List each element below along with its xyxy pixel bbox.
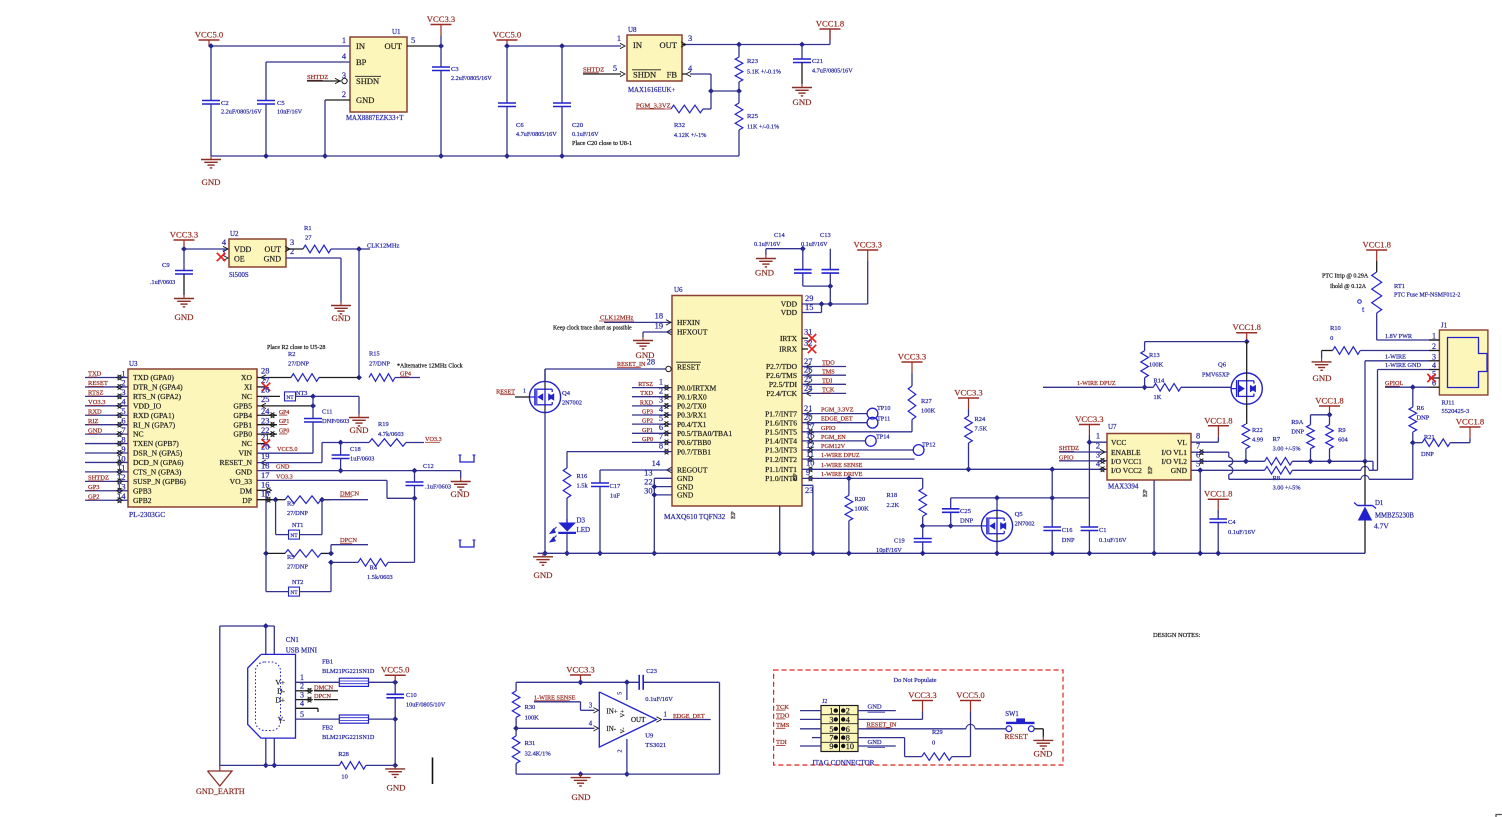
svg-text:GPB4: GPB4	[233, 411, 252, 420]
svg-text:NC: NC	[241, 439, 252, 448]
svg-text:C1: C1	[1099, 527, 1106, 534]
ground at R28	[385, 765, 405, 792]
power flag VCC1.8 at R9	[1311, 396, 1344, 418]
svg-text:U8: U8	[628, 26, 637, 34]
ground at R10	[1312, 358, 1332, 383]
svg-text:DESIGN NOTES:: DESIGN NOTES:	[1153, 632, 1201, 639]
power flag VCC3.3 at U1 output	[427, 14, 455, 46]
svg-text:4.7V: 4.7V	[1374, 522, 1389, 531]
svg-text:GND: GND	[349, 425, 368, 435]
resistor R21 DNP to VCC1.8	[1413, 434, 1470, 458]
svg-text:P1.4/INT4: P1.4/INT4	[765, 437, 797, 446]
svg-text:USB MINI: USB MINI	[286, 647, 318, 655]
svg-text:HFXIN: HFXIN	[677, 318, 701, 327]
U6 P1.3 PGM12V to TP12	[802, 440, 913, 452]
CN1 D- pin 2 to DMCN	[296, 682, 339, 694]
svg-text:27/DNP: 27/DNP	[287, 510, 308, 517]
net label 1-WIRE wire at J1 pin3	[1365, 353, 1429, 461]
svg-text:13: 13	[644, 468, 652, 477]
svg-text:IN-: IN-	[606, 725, 616, 733]
resistor R6 DNP	[1409, 387, 1430, 445]
svg-text:P0.3/RX1: P0.3/RX1	[677, 411, 707, 420]
svg-text:RTS_N (GPA2): RTS_N (GPA2)	[133, 392, 181, 401]
svg-text:VCC5.0: VCC5.0	[956, 690, 984, 700]
svg-text:R23: R23	[747, 58, 759, 65]
wire U8 OUT to VCC1.8	[681, 29, 830, 47]
svg-text:C14: C14	[774, 232, 785, 239]
svg-text:3.00 +/-5%: 3.00 +/-5%	[1273, 485, 1301, 492]
svg-text:SW1: SW1	[1005, 711, 1019, 718]
svg-text:VCC5.0: VCC5.0	[381, 665, 409, 675]
svg-text:3: 3	[659, 396, 663, 405]
ground at HFXOUT	[633, 337, 655, 360]
svg-text:18: 18	[261, 462, 269, 471]
svg-text:R9: R9	[1338, 427, 1345, 434]
net label CLK12MHz at oscillator	[331, 243, 399, 252]
svg-text:27: 27	[305, 235, 312, 242]
svg-text:OUT: OUT	[660, 40, 678, 50]
wire U2 GND to ground	[286, 258, 341, 302]
net label GP4 after R15	[400, 371, 411, 378]
svg-text:CLK12MHz: CLK12MHz	[367, 243, 399, 250]
svg-text:C21: C21	[812, 58, 823, 65]
wire R6 junction down to U7 IO VL1 row	[1412, 443, 1414, 480]
JTAG CONNECTOR caption	[812, 759, 875, 767]
svg-text:GND: GND	[868, 704, 882, 711]
net label SHTDZ at U8 SHDN	[583, 67, 625, 77]
svg-text:1uF/0603: 1uF/0603	[350, 456, 375, 463]
net label 1-WIRE GND wire at J1 pin4	[1373, 362, 1429, 470]
svg-text:CN1: CN1	[286, 636, 300, 644]
svg-text:604: 604	[1338, 437, 1348, 444]
U6 P1.7 PGM_3.3VZ to TP10	[802, 404, 867, 416]
svg-text:5: 5	[659, 414, 663, 423]
svg-text:DTR_N (GPA4): DTR_N (GPA4)	[133, 383, 183, 392]
net label EDGE_DET at U9 OUT	[657, 712, 711, 723]
net label RESET at Q4 gate	[496, 388, 529, 397]
transistor Q6 PMV65XP	[1202, 342, 1262, 424]
svg-text:BLM21PG221SN1D: BLM21PG221SN1D	[322, 668, 375, 675]
capacitor C14	[754, 232, 833, 289]
svg-text:VCC: VCC	[1111, 438, 1126, 447]
svg-text:NC: NC	[241, 392, 252, 401]
svg-text:Keep clock trace short as poss: Keep clock trace short as possible	[553, 326, 632, 332]
net label 1-WIRE DPUZ and resistor R14	[1043, 378, 1231, 401]
svg-text:1: 1	[664, 712, 667, 719]
wire U7 VL pin8 to VCC1.8	[1191, 437, 1218, 442]
svg-text:R10: R10	[1330, 325, 1341, 332]
svg-text:R9A: R9A	[1291, 419, 1303, 426]
svg-text:I/O VCC1: I/O VCC1	[1111, 457, 1142, 466]
wire VCC3.3 to U2 VDD	[184, 246, 229, 251]
svg-text:VDD: VDD	[234, 245, 252, 254]
svg-text:1: 1	[659, 377, 663, 386]
svg-text:XI: XI	[244, 383, 252, 392]
svg-text:GND: GND	[264, 255, 282, 264]
design notes caption	[1153, 632, 1201, 639]
svg-text:BP: BP	[356, 57, 367, 67]
svg-text:28: 28	[647, 358, 655, 367]
svg-text:4: 4	[300, 699, 304, 708]
U9 supply rail	[516, 679, 639, 691]
svg-text:VCC1.8: VCC1.8	[1362, 240, 1390, 250]
off-page bracket upper	[459, 455, 476, 462]
svg-text:4.7uF/0805/16V: 4.7uF/0805/16V	[812, 68, 853, 75]
svg-text:26: 26	[261, 385, 269, 394]
svg-text:RESET: RESET	[677, 363, 700, 372]
svg-text:18: 18	[655, 312, 663, 321]
resistor R19 to VO3.3	[341, 421, 424, 446]
svg-text:0: 0	[1330, 335, 1333, 342]
svg-text:GPIO: GPIO	[821, 425, 836, 432]
svg-text:VCC1.8: VCC1.8	[1204, 489, 1232, 499]
svg-text:3: 3	[589, 703, 593, 710]
svg-text:5: 5	[618, 692, 624, 695]
JTAG pin2 GND label	[858, 704, 896, 713]
svg-text:R8: R8	[1273, 475, 1280, 482]
resistor R27	[908, 373, 935, 420]
power flag VCC5.0 (input rail)	[195, 30, 223, 47]
regulator U1 MAX8887EZK33+T	[342, 28, 415, 122]
U3 DM to R5 wire	[263, 551, 269, 557]
U3 VIN pin 20 to VCC5.0	[257, 442, 313, 453]
svg-text:0.1uF/16V: 0.1uF/16V	[645, 696, 673, 703]
svg-text:2: 2	[342, 90, 346, 99]
svg-text:27/DNP: 27/DNP	[369, 361, 390, 368]
svg-text:4.99: 4.99	[1252, 437, 1263, 444]
svg-text:NT: NT	[290, 533, 298, 539]
power flag VCC1.8 at Q6	[1232, 322, 1260, 344]
svg-text:TP12: TP12	[922, 442, 935, 449]
svg-text:0: 0	[932, 740, 935, 747]
svg-text:I/O VL2: I/O VL2	[1162, 457, 1188, 466]
svg-text:D+: D+	[275, 695, 285, 704]
svg-text:GND: GND	[792, 97, 811, 107]
svg-text:U9: U9	[645, 733, 654, 740]
net label GPIO to U7 IO VCC1	[1059, 454, 1107, 463]
sheet frame corner mark	[1496, 815, 1502, 817]
resistor R22	[1242, 424, 1263, 464]
svg-text:P1.7/INT7: P1.7/INT7	[765, 409, 797, 418]
svg-text:SUSP_N (GPB6): SUSP_N (GPB6)	[133, 477, 186, 486]
svg-text:100K: 100K	[921, 408, 936, 415]
JTAG header pins and numbers	[829, 707, 854, 751]
wire CLK12MHz down to R2/R15 junction	[356, 249, 362, 380]
svg-text:Si500S: Si500S	[229, 272, 249, 279]
svg-text:GND: GND	[677, 491, 694, 500]
svg-text:J2: J2	[822, 699, 827, 705]
CN1 shield bottom stubs	[263, 738, 277, 768]
svg-text:C11: C11	[322, 409, 332, 416]
svg-text:MMBZ5230B: MMBZ5230B	[1375, 513, 1414, 520]
svg-text:Do Not Populate: Do Not Populate	[894, 677, 937, 684]
svg-text:C6: C6	[516, 122, 524, 129]
U6 P1.4 PGM_EN to TP14	[802, 431, 865, 443]
svg-text:26: 26	[804, 366, 812, 375]
op-amp U9 TS3021	[599, 682, 666, 777]
svg-text:P1.3/INT3: P1.3/INT3	[765, 446, 797, 455]
U6 EP pad wire	[777, 506, 783, 556]
svg-text:IN: IN	[356, 41, 365, 51]
svg-text:3: 3	[688, 34, 692, 43]
svg-text:C17: C17	[610, 483, 621, 490]
U7 pin4 arrow on 1-WIRE SENSE rail	[1100, 467, 1106, 472]
note Place R2 close to U5-28	[267, 345, 325, 351]
svg-text:TXEN (GPB7): TXEN (GPB7)	[133, 439, 179, 448]
svg-text:10: 10	[806, 459, 814, 468]
resistor R13	[1141, 342, 1247, 391]
svg-text:10pF/16V: 10pF/16V	[876, 547, 902, 554]
power flag VCC5.0 at CN1	[381, 665, 409, 683]
svg-text:3: 3	[829, 715, 833, 724]
svg-text:NT1: NT1	[292, 522, 303, 529]
wire U1 OUT to VCC3.3 node	[407, 43, 444, 49]
svg-text:P0.2/TX0: P0.2/TX0	[677, 402, 707, 411]
regulator U8 MAX1616EUK+	[613, 26, 693, 94]
svg-text:R18: R18	[887, 492, 898, 499]
svg-text:U6: U6	[674, 286, 683, 294]
svg-text:GND: GND	[533, 570, 552, 580]
svg-text:P0.7/TBB1: P0.7/TBB1	[677, 447, 711, 456]
svg-text:GPB2: GPB2	[133, 496, 152, 505]
svg-text:R1: R1	[304, 225, 312, 232]
svg-text:2N7002: 2N7002	[562, 400, 582, 407]
svg-text:0.1uF/16V: 0.1uF/16V	[1228, 529, 1256, 536]
power flag VCC3.3 at R27	[898, 352, 926, 374]
svg-text:1: 1	[1096, 432, 1100, 441]
CN1 pin 4 stub	[296, 699, 319, 712]
transistor Q4 2N7002	[529, 369, 582, 556]
svg-text:6: 6	[659, 423, 663, 432]
svg-text:GND: GND	[1171, 466, 1188, 475]
svg-text:29: 29	[805, 294, 813, 303]
svg-text:GPB1: GPB1	[233, 420, 252, 429]
svg-text:R19: R19	[378, 421, 389, 428]
svg-text:Ihold @ 0.12A: Ihold @ 0.12A	[1330, 284, 1367, 290]
resistor R25	[735, 91, 779, 156]
power flag VCC5.0 at JTAG	[956, 690, 984, 712]
svg-text:TXD (GPA0): TXD (GPA0)	[133, 373, 174, 382]
svg-text:5.1K +/-0.1%: 5.1K +/-0.1%	[747, 69, 781, 76]
ground at C14	[755, 249, 776, 278]
svg-text:C4: C4	[1228, 519, 1236, 526]
svg-text:TP10: TP10	[877, 405, 890, 412]
svg-text:U3: U3	[129, 360, 138, 368]
test point TP11	[867, 415, 890, 428]
ground at C12	[450, 478, 470, 499]
svg-text:J1: J1	[1441, 322, 1448, 330]
off-page bracket lower	[459, 540, 476, 547]
svg-text:10uF/0805/10V: 10uF/0805/10V	[406, 702, 446, 709]
svg-text:NC: NC	[133, 430, 144, 439]
svg-text:LED: LED	[577, 526, 591, 534]
svg-text:RT1: RT1	[1394, 283, 1405, 290]
capacitor C12	[406, 463, 452, 501]
svg-text:GND_EARTH: GND_EARTH	[196, 787, 245, 796]
svg-text:1: 1	[829, 707, 833, 716]
ground at C9	[174, 295, 194, 322]
svg-text:R27: R27	[921, 398, 932, 405]
svg-text:4.7uF/0805/16V: 4.7uF/0805/16V	[516, 131, 557, 138]
svg-text:0.1uF/16V: 0.1uF/16V	[801, 241, 828, 248]
svg-text:2.2uF/0805/16V: 2.2uF/0805/16V	[221, 109, 262, 116]
svg-text:4: 4	[589, 721, 593, 728]
resistor R15 alternative clock	[369, 351, 463, 382]
svg-text:DSR_N (GPA5): DSR_N (GPA5)	[133, 449, 183, 458]
svg-text:R22: R22	[1252, 427, 1263, 434]
svg-text:D-: D-	[277, 687, 285, 696]
svg-text:VCC5.0: VCC5.0	[277, 446, 297, 453]
svg-text:GND: GND	[1312, 373, 1331, 383]
svg-text:VIN: VIN	[239, 449, 253, 458]
svg-text:22: 22	[644, 478, 652, 487]
svg-text:7: 7	[659, 432, 663, 441]
JTAG pin4 to VCC3.3	[858, 712, 923, 720]
svg-text:27: 27	[804, 357, 812, 366]
svg-text:15: 15	[261, 490, 269, 499]
svg-text:FB2: FB2	[322, 725, 333, 732]
svg-text:VCC1.8: VCC1.8	[1456, 417, 1484, 427]
svg-text:HFXOUT: HFXOUT	[677, 328, 708, 337]
svg-text:V+: V+	[620, 709, 627, 717]
svg-text:VCC3.3: VCC3.3	[427, 14, 455, 24]
svg-text:PGM_EN: PGM_EN	[821, 434, 846, 441]
capacitor C16 DNP	[1043, 469, 1075, 556]
no-tie NT3 on U3 NC pin 26	[257, 385, 359, 414]
svg-text:3.00 +/-5%: 3.00 +/-5%	[1273, 446, 1301, 453]
svg-text:VCC3.3: VCC3.3	[954, 388, 982, 398]
svg-text:10: 10	[341, 774, 347, 781]
svg-text:GND: GND	[276, 464, 290, 471]
U6 GND pins 13 22 30	[644, 468, 672, 556]
svg-text:VCC3.3: VCC3.3	[853, 240, 881, 250]
ground at U9	[571, 774, 591, 802]
svg-text:C19: C19	[894, 538, 905, 545]
svg-text:GPB0: GPB0	[233, 430, 252, 439]
wire U7 IO VL1 jog down to bottom row	[1191, 450, 1413, 480]
svg-text:GND: GND	[755, 268, 774, 278]
svg-text:8: 8	[659, 441, 663, 450]
svg-text:GND: GND	[450, 489, 469, 499]
svg-text:PMV65XP: PMV65XP	[1202, 372, 1230, 379]
stray mark near CN1	[432, 758, 434, 785]
U7 EP wire to ground	[1151, 480, 1157, 556]
resistor R2 on XO pin 28	[257, 351, 359, 381]
svg-text:IRTX: IRTX	[780, 334, 798, 343]
svg-text:14: 14	[652, 459, 661, 468]
net label SHTDZ to U7 ENABLE	[1059, 445, 1107, 455]
svg-text:19: 19	[261, 452, 269, 461]
IC U6 MAXQ610 body	[664, 286, 802, 521]
U9 ground rail	[516, 771, 719, 777]
LED D3	[550, 517, 590, 557]
svg-text:R28: R28	[338, 751, 349, 758]
svg-text:4.7k/0603: 4.7k/0603	[378, 431, 404, 438]
no-connect X at U3 XI pin 27	[257, 376, 270, 391]
wire U7 IO VL2 to R7 row	[1191, 459, 1265, 464]
svg-text:MAXQ610 TQFN32: MAXQ610 TQFN32	[664, 512, 726, 521]
svg-text:RI_N (GPA7): RI_N (GPA7)	[133, 420, 176, 429]
svg-text:VCC5.0: VCC5.0	[195, 30, 223, 40]
svg-text:EP: EP	[1142, 489, 1149, 497]
svg-text:ENABLE: ENABLE	[1111, 448, 1141, 457]
resistor R7	[1265, 436, 1368, 465]
svg-text:2: 2	[618, 750, 624, 753]
do not populate dashed box	[774, 670, 1063, 765]
svg-text:GND: GND	[236, 468, 253, 477]
U3 GPB5 pin 25 wire	[257, 395, 316, 409]
svg-text:OUT: OUT	[265, 245, 282, 254]
svg-text:R5: R5	[287, 554, 294, 561]
svg-text:Q5: Q5	[1015, 511, 1024, 518]
svg-text:1uF: 1uF	[610, 493, 620, 500]
svg-text:PL-2303GC: PL-2303GC	[129, 510, 165, 519]
resistor R1 on U2 OUT	[285, 225, 331, 253]
svg-text:C10: C10	[406, 692, 417, 699]
JTAG left labels TCK TDO TMS TDI	[776, 704, 821, 746]
svg-text:I/O VL1: I/O VL1	[1162, 448, 1188, 457]
svg-text:.1uF/0603: .1uF/0603	[150, 279, 175, 286]
svg-text:GND: GND	[174, 312, 193, 322]
svg-text:GND: GND	[571, 792, 590, 802]
svg-text:PGM_3.3VZ: PGM_3.3VZ	[821, 407, 854, 414]
svg-text:100K: 100K	[525, 715, 540, 722]
svg-text:2N7002: 2N7002	[1015, 521, 1035, 528]
IC U7 MAX3394 body	[1096, 423, 1200, 497]
ferrite bead FB1	[322, 659, 398, 687]
resistor R3 DNP on DP	[276, 496, 330, 517]
net label SHTDZ at U1 SHDN	[307, 74, 347, 84]
svg-text:TS3021: TS3021	[645, 742, 666, 749]
svg-text:0.1uF/16V: 0.1uF/16V	[754, 241, 781, 248]
svg-text:GND: GND	[868, 739, 882, 746]
svg-text:2.2uF/0805/16V: 2.2uF/0805/16V	[451, 75, 492, 82]
U3 VO_33 pin 17 wire	[257, 471, 415, 498]
svg-text:DCD_N (GPA6): DCD_N (GPA6)	[133, 458, 184, 467]
svg-text:DNP: DNP	[1062, 537, 1075, 544]
svg-text:R3: R3	[287, 501, 294, 508]
U3 DP pin 15 wire	[257, 490, 279, 503]
svg-text:NT: NT	[290, 590, 298, 596]
svg-text:R31: R31	[525, 740, 536, 747]
svg-text:RXD (GPA1): RXD (GPA1)	[133, 411, 175, 420]
svg-text:OUT: OUT	[631, 716, 646, 724]
capacitor C23	[639, 668, 719, 774]
svg-text:Place C20 close to U8-1: Place C20 close to U8-1	[572, 140, 632, 147]
svg-text:100K: 100K	[1149, 362, 1164, 369]
J1 pin stubs and numbers	[1429, 332, 1439, 388]
svg-text:C13: C13	[820, 232, 831, 239]
svg-text:EP: EP	[730, 511, 737, 519]
power flag VCC1.8 at PTC	[1362, 240, 1390, 262]
resistor R24	[965, 409, 988, 469]
ferrite bead FB2	[322, 715, 395, 741]
svg-text:7.5K: 7.5K	[975, 426, 988, 433]
capacitor C6	[498, 46, 557, 159]
U6 P1.2 net 1-WIRE DPUZ	[802, 449, 915, 461]
wire VCC3.3 to U7 pin1	[1089, 441, 1107, 443]
power flag VCC1.8 at U8 output	[816, 19, 844, 41]
net label DPCN wire	[331, 537, 368, 553]
svg-text:GND: GND	[1033, 749, 1052, 759]
svg-text:Q4: Q4	[562, 390, 571, 397]
svg-text:Place R2 close to U5-28: Place R2 close to U5-28	[267, 345, 325, 351]
capacitor C25 DNP	[923, 498, 974, 529]
svg-text:JTAG CONNECTOR: JTAG CONNECTOR	[812, 759, 875, 767]
svg-text:VCC3.3: VCC3.3	[566, 665, 594, 675]
svg-text:EDGE_DET: EDGE_DET	[821, 416, 853, 423]
earth ground GND_EARTH	[196, 765, 245, 796]
